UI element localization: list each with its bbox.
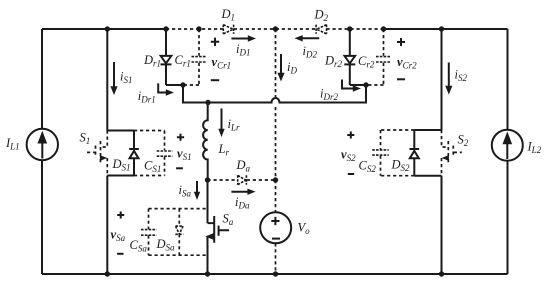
node top Cr1 [196, 26, 201, 31]
node top Cr2 [381, 26, 386, 31]
capacitor Cr1 [175, 29, 207, 85]
label vS2 minus [348, 173, 354, 175]
node Dr1 bottom [180, 82, 185, 87]
inductor Lr [203, 103, 229, 181]
wire S1 branch lower [106, 176, 108, 275]
voltage source Vo [260, 212, 310, 243]
wire center dashed column [275, 29, 277, 274]
node top Dr1 [163, 26, 168, 31]
diode D2 [314, 7, 329, 34]
arrow iLr [218, 109, 240, 138]
node Da junction [273, 177, 278, 182]
wire DS1 top [107, 130, 134, 132]
diode D1 [221, 7, 236, 34]
current source IL2 [492, 130, 542, 161]
wire left bus [41, 29, 43, 274]
capacitor CSa [130, 209, 208, 256]
node Lr top [205, 100, 210, 105]
arrow iD [277, 54, 297, 82]
node bottom S2 [439, 271, 444, 276]
wire S2 branch lower [441, 176, 443, 274]
diode Dr2 [324, 29, 355, 85]
transistor Sa [205, 212, 233, 275]
wire right bus [507, 29, 509, 274]
diode DS1 [112, 131, 139, 176]
node Dr2 bottom [363, 82, 368, 87]
node bottom S1 [105, 271, 110, 276]
arrow iD1 [231, 35, 256, 57]
label vCr1 minus [211, 79, 219, 81]
capacitor CS2 [359, 130, 415, 176]
label vSa plus [117, 212, 124, 219]
node bottom Vo [273, 271, 278, 276]
transistor S1 [80, 131, 108, 176]
current source IL1 [5, 129, 58, 160]
arrow iDa [231, 189, 255, 211]
label vS1 minus [176, 167, 183, 169]
node bottom Sa [205, 271, 210, 276]
label vS2 plus [347, 132, 354, 139]
wire top bus solid right [384, 28, 508, 30]
diode Dr1 [143, 29, 172, 85]
wire resonant link [183, 85, 366, 103]
arrow iS1 [110, 62, 132, 95]
label vSa minus [117, 253, 123, 255]
arrow iD2 [295, 35, 320, 59]
node Sa junction [205, 177, 210, 182]
capacitor Cr2 [358, 29, 391, 85]
wire S2 branch upper [441, 29, 443, 130]
wire Dr1 to node [166, 84, 183, 86]
diode Da [208, 158, 276, 185]
wire DS2 bottom [414, 175, 441, 177]
node top S1 [105, 26, 110, 31]
arrow iS2 [445, 63, 467, 95]
wire DS2 top [414, 129, 441, 131]
node top Dr2 [347, 26, 352, 31]
transistor S2 [442, 130, 469, 176]
wire DS1 bottom [107, 175, 134, 177]
diode DSa [156, 209, 184, 256]
label vCr2 minus [397, 78, 405, 80]
node top center [273, 26, 278, 31]
wire S1 branch upper [106, 29, 108, 131]
wire Sa stem upper [207, 180, 209, 223]
arrow iDr1 [138, 83, 174, 104]
wire Dr2 to node [350, 84, 366, 86]
arrow iDr2 [320, 80, 361, 103]
wire top bus solid left [42, 28, 166, 30]
label vCr1 plus [211, 38, 219, 46]
label vS1 plus [177, 134, 184, 141]
capacitor CS1 [134, 131, 172, 176]
wire bottom bus [42, 273, 508, 275]
node top S2 [439, 26, 444, 31]
diode DS2 [391, 130, 420, 176]
wire top bus dashed middle [166, 28, 384, 30]
label vCr2 plus [397, 38, 405, 46]
arrow iSa [179, 181, 201, 200]
